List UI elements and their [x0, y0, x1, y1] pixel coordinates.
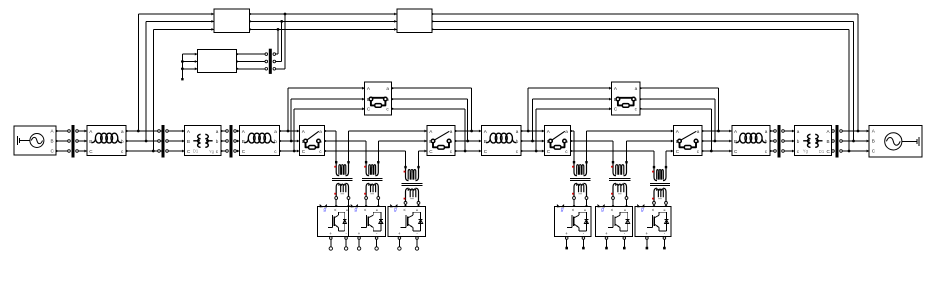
svg-text:B: B — [614, 97, 617, 102]
wire bus B3 to inductor L2 phase B — [235, 140, 240, 142]
wire T5 primary right to breaker CB4 B — [627, 141, 674, 161]
wire T1 primary right to breaker CB2 A — [349, 131, 428, 161]
junction F2 tap B — [531, 140, 534, 143]
junction phase B tap left — [145, 140, 148, 143]
bus bar B1 — [68, 125, 79, 158]
svg-text:b: b — [565, 139, 568, 144]
wire inductor L3 to breaker CB3 phase A — [521, 130, 545, 132]
wire bus B6 a up to top wire 3 — [274, 29, 278, 54]
wire fault F2 b return tap — [640, 99, 715, 141]
wire top wire 3 to right corner — [432, 29, 849, 151]
wire breaker CB3 c to T6 primary left — [571, 151, 655, 166]
wire: subsystem M3 input tie line — [182, 54, 197, 78]
bus bar B6 — [265, 49, 276, 74]
wire bus B4 to transformer TR2 phase A — [783, 130, 795, 132]
wire breaker CB1 a to T1 primary left — [325, 131, 337, 161]
wire inductor L4 to bus B4 phase C — [770, 150, 775, 152]
svg-text:g: g — [324, 207, 327, 213]
svg-text:b: b — [450, 139, 453, 144]
wire bus B2 to transformer TR1 phase B — [169, 140, 185, 142]
wire subsystem M3 out b to bus B6 — [237, 61, 267, 63]
junction F1 return B — [466, 140, 469, 143]
subsystem block M1 (measurement, left) — [211, 9, 252, 32]
svg-text:B: B — [676, 139, 679, 144]
wire inductor L3 to breaker CB3 phase C — [521, 150, 545, 152]
three-phase series RLC branch L3 — [479, 126, 524, 156]
wire breaker CB1 b to T2 primary left — [325, 141, 367, 161]
single-phase transformer T4 — [570, 161, 591, 208]
three-phase series RLC branch L1 — [84, 126, 128, 156]
wire T4 primary right to breaker CB4 A — [587, 131, 674, 161]
wire bus B2 to transformer TR1 phase C — [169, 150, 185, 152]
wire breaker CB3 a to T4 primary left — [571, 131, 575, 161]
svg-text:g: g — [561, 207, 564, 213]
wire source1 to bus B1 phase B — [56, 140, 69, 142]
wire bus B5 to source2 phase C — [841, 150, 869, 152]
junction top wire 2 — [280, 20, 283, 23]
IGBT half-bridge module M-a2 — [349, 204, 386, 250]
svg-text:Yg: Yg — [209, 149, 215, 154]
svg-text:g: g — [355, 207, 358, 213]
wire fault F2 B tap — [533, 99, 612, 141]
svg-text:b: b — [765, 139, 768, 144]
svg-text:B: B — [484, 139, 487, 144]
wire bus B2 to transformer TR1 phase A — [169, 130, 185, 132]
IGBT half-bridge module M-b1 — [555, 204, 591, 249]
wire breaker CB4 to inductor L4 phase A — [702, 130, 732, 132]
svg-text:a: a — [121, 129, 124, 134]
wire bus B5 to source2 phase A — [841, 130, 869, 132]
wire bus B4 to transformer TR2 phase B — [783, 140, 795, 142]
wire top wire 2 between subsystems — [250, 20, 397, 22]
three-phase programmable voltage source SRC1 — [14, 126, 59, 155]
junction phase C tap right — [848, 150, 851, 153]
svg-text:a: a — [797, 129, 800, 134]
wire fault F2 C tap — [536, 109, 612, 151]
wire top wire 2 to right corner — [432, 21, 854, 141]
three-phase fault F2 — [609, 82, 642, 115]
wire top wire 1 between subsystems — [250, 13, 397, 15]
wire transformer TR1 to bus B3 phase C — [221, 150, 228, 152]
IGBT half-bridge module M-b3 — [635, 204, 671, 249]
svg-text:a: a — [274, 129, 277, 134]
bus bar B5 — [832, 125, 843, 158]
junction M3 tie C — [181, 67, 184, 70]
wire bus B6 c up to top wire 1 — [274, 14, 285, 69]
junction top wire 3 — [277, 28, 280, 31]
junction F2 return C — [710, 150, 713, 153]
svg-text:a: a — [635, 86, 638, 91]
wire fault F2 A tap — [528, 88, 612, 131]
wire inductor L4 to bus B4 phase B — [770, 140, 775, 142]
junction F2 tap C — [535, 150, 538, 153]
junction F2 tap A — [527, 130, 530, 133]
svg-text:B: B — [872, 139, 875, 144]
single-phase transformer T1 — [332, 161, 352, 208]
junction phase C tap left — [152, 150, 155, 153]
wire inductor L4 to bus B4 phase A — [770, 130, 775, 132]
wire measurement tap phase B up-left — [146, 21, 214, 141]
wire source1 to bus B1 phase C — [56, 150, 69, 152]
svg-text:g: g — [641, 207, 644, 213]
svg-text:a: a — [565, 129, 568, 134]
svg-text:g: g — [601, 207, 604, 213]
bus bar B4 — [774, 125, 785, 158]
three-phase series RLC branch L4 — [729, 126, 772, 156]
IGBT half-bridge module M-a1 — [318, 204, 349, 250]
wire breaker CB1 c to T3 primary left — [325, 151, 406, 166]
wire T6 primary right to breaker CB4 C — [666, 151, 674, 166]
junction F1 tap C — [293, 150, 296, 153]
junction phase A tap left — [137, 130, 140, 133]
single-phase transformer T2 — [362, 161, 382, 208]
svg-text:b: b — [319, 139, 322, 144]
wire transformer TR1 to bus B3 phase A — [221, 130, 228, 132]
wire fault F1 C tap — [294, 109, 365, 151]
dangling line end square — [181, 78, 183, 80]
wire inductor L3 to breaker CB3 phase B — [521, 140, 545, 142]
svg-text:a: a — [319, 129, 322, 134]
three-phase breaker CB3 — [542, 126, 573, 156]
three-phase transformer TR2 — [792, 126, 834, 156]
junction phase B tap right — [852, 140, 855, 143]
wire fault F1 a return tap — [392, 88, 472, 131]
wire inductor L1 to bus B2 phase B — [126, 140, 161, 142]
svg-text:Yg: Yg — [803, 149, 809, 154]
wire bus B5 to source2 phase B — [841, 140, 869, 142]
wire bus B1 to inductor L1 phase A — [77, 130, 88, 132]
svg-text:b: b — [216, 139, 219, 144]
svg-text:B: B — [187, 139, 190, 144]
svg-text:B: B — [827, 139, 830, 144]
wire bus B4 to transformer TR2 phase C — [783, 150, 795, 152]
svg-text:B: B — [242, 139, 245, 144]
wire inductor L2 to breaker CB1 phase C — [280, 150, 300, 152]
IGBT half-bridge module M-a3 — [388, 204, 425, 250]
svg-text:B: B — [547, 139, 550, 144]
IGBT half-bridge module M-b2 — [595, 204, 632, 249]
wire fault F1 c return tap — [392, 109, 466, 151]
svg-text:B: B — [367, 97, 370, 102]
three-phase fault F1 — [362, 82, 394, 115]
junction M3 tie B — [181, 60, 184, 63]
bus bar B3 — [226, 125, 237, 158]
subsystem block M2 (measurement, right) — [394, 9, 434, 32]
wire top wire 1 to right corner — [432, 14, 858, 131]
three-phase breaker CB1 — [297, 126, 327, 156]
svg-text:b: b — [635, 97, 638, 102]
wire measurement tap phase A up-left — [138, 14, 214, 131]
svg-text:b: b — [274, 139, 277, 144]
wire breaker CB4 to inductor L4 phase C — [702, 150, 732, 152]
wire fault F2 a return tap — [640, 88, 719, 131]
wire breaker CB2 to inductor L3 phase C — [455, 150, 482, 152]
svg-text:b: b — [121, 139, 124, 144]
junction F1 tap B — [290, 140, 293, 143]
svg-text:a: a — [697, 129, 700, 134]
wire inductor L1 to bus B2 phase C — [126, 150, 161, 152]
svg-text:B: B — [302, 139, 305, 144]
wire subsystem M3 out a to bus B6 — [237, 53, 267, 55]
junction top wire 1 — [284, 13, 287, 16]
wire bus B3 to inductor L2 phase C — [235, 150, 240, 152]
three-phase transformer TR1 — [182, 126, 224, 156]
wire breaker CB4 to inductor L4 phase B — [702, 140, 732, 142]
wire fault F1 A tap — [288, 88, 365, 131]
wire bus B1 to inductor L1 phase C — [77, 150, 88, 152]
svg-text:a: a — [386, 86, 389, 91]
junction F2 return A — [717, 130, 720, 133]
wire bus B6 b up to top wire 2 — [274, 21, 281, 61]
svg-text:b: b — [516, 139, 519, 144]
svg-text:g: g — [394, 207, 397, 213]
wire subsystem M3 out c to bus B6 — [237, 68, 267, 70]
three-phase breaker CB4 — [671, 126, 705, 156]
svg-text:a: a — [765, 129, 768, 134]
wire bus B3 to inductor L2 phase A — [235, 130, 240, 132]
wire transformer TR2 to bus B5 phase B — [832, 140, 833, 142]
svg-text:b: b — [386, 97, 389, 102]
junction F1 return A — [470, 130, 473, 133]
wire transformer TR2 to bus B5 phase C — [832, 150, 833, 152]
wire fault F2 c return tap — [640, 109, 712, 151]
single-phase transformer T5 — [609, 161, 631, 208]
three-phase programmable voltage source SRC2 — [867, 126, 923, 158]
wire inductor L1 to bus B2 phase A — [126, 130, 161, 132]
svg-text:B: B — [734, 139, 737, 144]
single-phase transformer T6 — [650, 166, 670, 208]
svg-text:a: a — [216, 129, 219, 134]
wire transformer TR1 to bus B3 phase B — [221, 140, 228, 142]
svg-text:b: b — [797, 139, 800, 144]
bus bar B2 — [158, 125, 169, 158]
svg-text:B: B — [51, 139, 54, 144]
svg-text:a: a — [450, 129, 453, 134]
wire source1 to bus B1 phase A — [56, 130, 69, 132]
junction F1 return C — [464, 150, 467, 153]
svg-text:D1: D1 — [819, 149, 825, 154]
wire bus B1 to inductor L1 phase B — [77, 140, 88, 142]
three-phase series RLC branch L2 — [237, 126, 282, 156]
wire measurement tap phase C up-left — [153, 29, 214, 151]
wire breaker CB2 to inductor L3 phase B — [455, 140, 482, 142]
junction F2 return B — [714, 140, 717, 143]
wire inductor L2 to breaker CB1 phase A — [280, 130, 300, 132]
junction phase A tap right — [857, 130, 860, 133]
wire breaker CB3 b to T5 primary left — [571, 141, 614, 161]
svg-text:B: B — [89, 139, 92, 144]
wire T2 primary right to breaker CB2 B — [378, 141, 427, 161]
single-phase transformer T3 — [402, 166, 423, 208]
subsystem block M3 (scope group) — [195, 49, 239, 72]
svg-text:a: a — [516, 129, 519, 134]
svg-text:≡: ≡ — [346, 208, 348, 212]
svg-text:B: B — [429, 139, 432, 144]
svg-text:b: b — [697, 139, 700, 144]
wire inductor L2 to breaker CB1 phase B — [280, 140, 300, 142]
wire T3 primary right to breaker CB2 C — [419, 151, 428, 166]
wire fault F1 b return tap — [392, 99, 468, 141]
wire breaker CB2 to inductor L3 phase A — [455, 130, 482, 132]
svg-text:D1: D1 — [193, 149, 199, 154]
wire fault F1 B tap — [291, 99, 365, 141]
wire top wire 3 between subsystems — [250, 28, 397, 30]
three-phase breaker CB2 — [424, 126, 457, 156]
junction F1 tap A — [287, 130, 290, 133]
wire transformer TR2 to bus B5 phase A — [832, 130, 833, 132]
